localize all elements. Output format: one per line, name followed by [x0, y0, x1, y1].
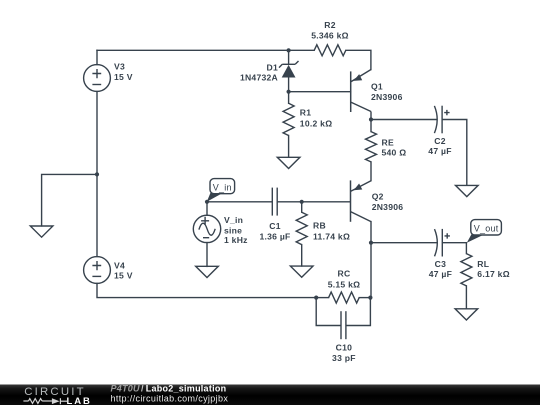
wire V_in source bottom lead [206, 243, 208, 267]
ground (under V_in) [196, 266, 219, 277]
capacitor C3 polarized [435, 229, 450, 257]
resistor R1 [283, 103, 294, 135]
resistor RL [461, 254, 472, 286]
ground (mid-rail) [30, 226, 53, 237]
node junction dots [95, 48, 373, 299]
footer bar [0, 385, 540, 405]
wire RE top lead [370, 120, 372, 132]
wire D1 top lead [288, 50, 290, 64]
svg-text:LAB: LAB [67, 396, 92, 405]
wire V4 bottom to bottom rail [97, 283, 316, 297]
svg-text:V_in: V_in [224, 215, 243, 225]
wire C10 left loop [316, 298, 340, 326]
wire D1 anode to base node [288, 78, 290, 92]
svg-text:15 V: 15 V [114, 72, 133, 82]
transistor Q2 [350, 180, 371, 221]
svg-text:1.36 µF: 1.36 µF [259, 231, 290, 241]
CircuitLab logo squiggle (resistor + diode) [23, 398, 67, 404]
svg-text:V3: V3 [114, 62, 125, 72]
wire RL top lead [465, 243, 467, 254]
svg-text:R1: R1 [300, 108, 312, 118]
svg-text:V_out: V_out [474, 224, 499, 234]
wire V_in node to C1 [207, 201, 272, 203]
wire C3 to V_out node [443, 242, 467, 244]
voltage source V3 [84, 65, 111, 92]
resistor R2 [314, 45, 346, 56]
wire RC left lead [316, 297, 328, 299]
svg-text:RC: RC [338, 269, 351, 279]
svg-text:P4T0U: P4T0U [111, 384, 141, 394]
wire C2 to ground [442, 120, 467, 186]
voltage source V_in sine [193, 215, 220, 242]
svg-text:5.346 kΩ: 5.346 kΩ [311, 31, 349, 41]
svg-text:Q1: Q1 [371, 82, 383, 92]
svg-text:2N3906: 2N3906 [372, 202, 404, 212]
svg-text:D1: D1 [267, 62, 279, 72]
node V_out flag [467, 220, 502, 243]
svg-text:http://circuitlab.com/cyjpjbx: http://circuitlab.com/cyjpjbx [111, 394, 229, 404]
svg-text:V4: V4 [114, 260, 125, 270]
ground (under RL) [455, 309, 478, 320]
wire top rail [97, 49, 314, 51]
wire V_in source top lead [206, 202, 208, 216]
svg-text:C10: C10 [336, 342, 353, 352]
svg-text:2N3906: 2N3906 [371, 92, 403, 102]
svg-text:RE: RE [382, 138, 394, 148]
svg-text:C1: C1 [269, 221, 281, 231]
svg-text:1 kHz: 1 kHz [224, 235, 248, 245]
wire V3 top lead [96, 50, 98, 64]
svg-text:540 Ω: 540 Ω [382, 147, 407, 157]
svg-text:RL: RL [477, 259, 489, 269]
capacitor C1 [272, 188, 277, 216]
wire left rail V3 to V4 [96, 91, 98, 256]
ground (under C2) [456, 185, 479, 196]
wire Q2 emitter column [370, 222, 372, 298]
svg-text:/: / [141, 384, 144, 394]
svg-text:47 µF: 47 µF [428, 146, 451, 156]
wire C10 right loop [346, 298, 370, 326]
wire out node to C3 [371, 242, 437, 244]
wire RL bottom lead [465, 286, 467, 309]
wire RC right lead [359, 297, 370, 299]
svg-text:Q2: Q2 [372, 192, 384, 202]
svg-text:47 µF: 47 µF [429, 269, 452, 279]
resistor RC [329, 292, 360, 303]
resistor RB [296, 212, 307, 244]
capacitor C2 polarized [434, 106, 449, 134]
voltage source V4 [84, 257, 111, 284]
svg-text:11.74 kΩ: 11.74 kΩ [313, 232, 350, 242]
wire R1 bottom lead [288, 136, 290, 158]
node V_in flag [207, 179, 235, 202]
svg-text:5.15 kΩ: 5.15 kΩ [328, 279, 361, 289]
wire RB bottom lead [301, 245, 303, 266]
ground (under RB) [290, 266, 313, 277]
svg-text:R2: R2 [324, 20, 336, 30]
zener diode D1 [279, 61, 299, 78]
ground (under R1) [277, 157, 300, 168]
wire RE bottom to Q2 [370, 162, 372, 181]
svg-text:sine: sine [224, 225, 242, 235]
wire C1 to RB node [277, 201, 301, 203]
transistor Q1 [351, 70, 372, 120]
svg-text:RB: RB [313, 221, 326, 231]
svg-text:15 V: 15 V [114, 271, 133, 281]
svg-text:Labo2_simulation: Labo2_simulation [146, 384, 227, 394]
svg-text:C3: C3 [435, 259, 447, 269]
svg-text:C2: C2 [434, 136, 446, 146]
wire Q1 base [289, 91, 351, 93]
svg-text:V_in: V_in [213, 183, 232, 193]
wire RB top lead [301, 202, 303, 212]
wire R2 right to Q1 collector [346, 50, 371, 69]
resistor RE [366, 132, 377, 162]
wire mid ground branch [42, 174, 97, 226]
svg-text:1N4732A: 1N4732A [240, 72, 278, 82]
svg-text:6.17 kΩ: 6.17 kΩ [477, 269, 510, 279]
svg-text:10.2 kΩ: 10.2 kΩ [300, 119, 333, 129]
wire R1 top lead [288, 92, 290, 104]
capacitor C10 [341, 311, 346, 339]
svg-text:33 pF: 33 pF [332, 353, 356, 363]
wire Q1 emitter node to C2 [371, 119, 437, 121]
wire Q2 base [302, 201, 351, 203]
